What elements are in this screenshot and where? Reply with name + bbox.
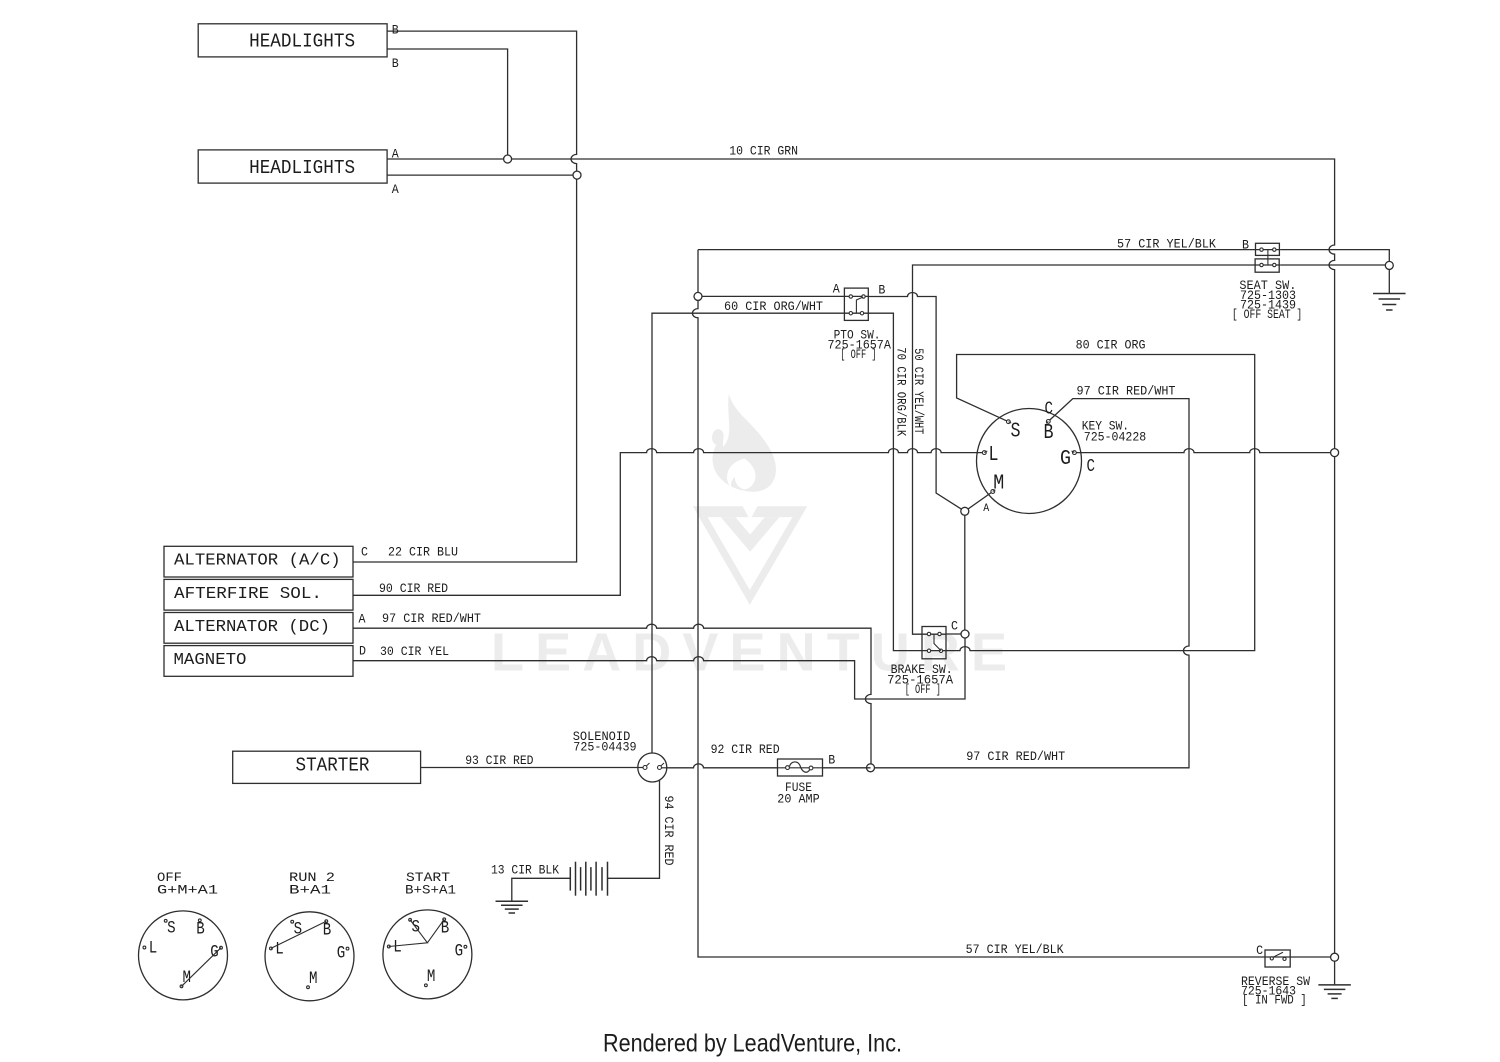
wire: seat switch ground stem: [1388, 265, 1390, 293]
solenoid: [638, 753, 667, 782]
svg-text:Rendered by LeadVenture, Inc.: Rendered by LeadVenture, Inc.: [603, 1030, 902, 1058]
wire: reverse switch ground stem: [1334, 957, 1336, 984]
wire: seat switch lower wire / 50 CIR YEL/WHT vertical to brake sw: [1280, 264, 1389, 266]
svg-text:20 AMP: 20 AMP: [777, 793, 819, 807]
wire: headlight-1 B bottom down to 10 CIR GRN junction: [387, 49, 508, 159]
svg-text:B: B: [392, 24, 399, 38]
svg-text:HEADLIGHTS: HEADLIGHTS: [249, 31, 355, 53]
svg-text:C: C: [1045, 399, 1054, 419]
afterfire solenoid box: [164, 579, 353, 610]
svg-text:725-04439: 725-04439: [573, 740, 636, 754]
svg-text:80 CIR ORG: 80 CIR ORG: [1076, 339, 1146, 353]
svg-text:G: G: [210, 942, 219, 962]
svg-text:D: D: [359, 645, 366, 659]
fuse: [778, 759, 823, 776]
svg-text:B+S+A1: B+S+A1: [405, 884, 456, 898]
svg-text:G: G: [455, 941, 464, 961]
svg-text:A: A: [392, 183, 399, 197]
brake switch: [922, 627, 946, 659]
junction node: [961, 507, 969, 515]
PTO switch: [844, 288, 868, 320]
junction node: [1385, 261, 1393, 269]
wire: PTO B to key M junction (50 CIR YEL/WHT): [868, 293, 965, 512]
wire: solenoid to fuse: [667, 764, 777, 768]
junction node: [961, 630, 969, 638]
wire: main left vertical bus x=698 + 57 CIR YEL/BLK bottom to reverse sw: [692, 250, 1290, 957]
svg-text:92 CIR RED: 92 CIR RED: [711, 743, 780, 757]
svg-text:97 CIR RED/WHT: 97 CIR RED/WHT: [1077, 385, 1176, 399]
alternator A/C box: [164, 546, 353, 577]
svg-text:57 CIR YEL/BLK: 57 CIR YEL/BLK: [966, 943, 1064, 957]
wire: brake C to junction: [946, 633, 965, 635]
wire: 97 CIR RED/WHT alternator DC to fuse junction: [353, 624, 871, 768]
headlights box 2: [198, 150, 387, 183]
reverse switch: [1265, 950, 1290, 967]
svg-text:13 CIR BLK: 13 CIR BLK: [491, 864, 559, 878]
ground (battery): [496, 900, 529, 902]
svg-text:90 CIR RED: 90 CIR RED: [379, 582, 448, 596]
svg-text:L: L: [989, 444, 999, 467]
wire: 90 CIR RED from afterfire sol. + key L feed: [353, 449, 984, 596]
svg-text:B: B: [1044, 422, 1054, 445]
junction node: [1331, 953, 1339, 961]
svg-text:C: C: [1087, 457, 1096, 477]
svg-text:G+M+A1: G+M+A1: [157, 884, 218, 898]
junction node: [1331, 449, 1339, 457]
svg-text:97 CIR RED/WHT: 97 CIR RED/WHT: [966, 750, 1065, 764]
svg-text:30 CIR YEL: 30 CIR YEL: [380, 645, 449, 659]
svg-text:L: L: [149, 939, 158, 959]
key switch terminals: [1007, 420, 1011, 424]
svg-text:S: S: [167, 919, 176, 939]
svg-text:ALTERNATOR (A/C): ALTERNATOR (A/C): [174, 552, 341, 571]
svg-text:97 CIR RED/WHT: 97 CIR RED/WHT: [382, 612, 481, 626]
svg-text:HEADLIGHTS: HEADLIGHTS: [249, 157, 355, 179]
wire: PTO lower-right, 70 CIR ORG/BLK vertical, to brake sw: [868, 313, 946, 650]
svg-text:L: L: [393, 938, 402, 958]
wire: 10 CIR GRN main + right-side vertical bus: [387, 159, 1335, 957]
svg-text:B+A1: B+A1: [289, 884, 331, 898]
wire: key G to right bus: [1074, 449, 1334, 453]
key position circle START: [383, 910, 472, 999]
alternator DC box: [164, 613, 353, 644]
svg-text:C: C: [361, 546, 368, 560]
svg-text:A: A: [983, 503, 989, 515]
junction node: [867, 764, 875, 772]
svg-text:B: B: [878, 283, 885, 297]
svg-text:A: A: [359, 613, 366, 627]
svg-text:A: A: [392, 148, 399, 162]
svg-text:[ OFF ]: [ OFF ]: [905, 683, 941, 697]
wire: 57 CIR YEL/BLK top to seat switch: [698, 249, 1280, 251]
wire: headlight-2 A bottom to junction: [387, 174, 577, 176]
svg-text:G: G: [337, 943, 346, 963]
wire: fuse output to junction: [823, 767, 871, 769]
svg-text:B: B: [1242, 239, 1249, 253]
svg-text:57 CIR YEL/BLK: 57 CIR YEL/BLK: [1117, 238, 1216, 252]
key position circle OFF: [139, 911, 228, 1000]
wire: PTO lower-left to solenoid top: [652, 313, 868, 753]
starter box: [233, 751, 421, 783]
svg-text:C: C: [1256, 944, 1263, 958]
wire: headlight-1 B top to alternator A/C (22 CIR BLU vertical): [353, 31, 577, 562]
wire: key M diagonal: [965, 492, 993, 512]
junction node: [573, 171, 581, 179]
svg-text:94 CIR RED: 94 CIR RED: [661, 796, 675, 866]
wire: 97 CIR RED/WHT key B to fuse junction: [871, 399, 1190, 768]
svg-text:70 CIR ORG/BLK: 70 CIR ORG/BLK: [893, 347, 907, 436]
wire: 80 CIR ORG brake sw to key S: [946, 355, 1255, 651]
headlights box 1: [198, 24, 387, 57]
svg-text:[ OFF ]: [ OFF ]: [840, 348, 876, 362]
svg-text:60 CIR ORG/WHT: 60 CIR ORG/WHT: [724, 300, 823, 314]
battery 13 CIR BLK: [569, 867, 571, 891]
svg-text:B: B: [828, 754, 835, 768]
svg-text:MAGNETO: MAGNETO: [174, 651, 247, 670]
svg-text:STARTER: STARTER: [296, 755, 370, 777]
wire: key M junction down to brake C junction: [964, 511, 966, 634]
key switch U1 circle: [977, 409, 1082, 514]
svg-text:10 CIR GRN: 10 CIR GRN: [729, 144, 798, 158]
svg-text:A: A: [833, 282, 840, 296]
svg-text:B: B: [392, 57, 399, 71]
svg-text:50 CIR YEL/WHT: 50 CIR YEL/WHT: [911, 348, 925, 434]
wire: battery negative to ground (13 CIR BLK): [512, 878, 571, 901]
svg-text:G: G: [1060, 448, 1071, 471]
svg-text:[ OFF SEAT ]: [ OFF SEAT ]: [1232, 308, 1302, 322]
svg-text:[ IN FWD ]: [ IN FWD ]: [1242, 994, 1307, 1008]
wire: 60 CIR ORG/WHT junction to PTO A: [698, 295, 868, 297]
junction node: [694, 292, 702, 300]
svg-text:S: S: [1011, 420, 1021, 443]
svg-text:M: M: [427, 967, 436, 987]
svg-text:B: B: [323, 921, 332, 941]
seat switch: [1256, 243, 1280, 255]
wire: 93 CIR RED starter to solenoid: [421, 767, 638, 769]
ground (reverse switch): [1318, 984, 1351, 986]
ground (seat switch): [1373, 293, 1406, 295]
svg-text:M: M: [993, 472, 1004, 495]
svg-text:725-04228: 725-04228: [1084, 431, 1146, 445]
wire: solenoid bottom to battery (94 CIR RED): [608, 780, 660, 878]
svg-text:22 CIR BLU: 22 CIR BLU: [388, 546, 458, 560]
junction node: [504, 155, 512, 163]
watermark flame logo: [693, 394, 808, 605]
svg-text:AFTERFIRE SOL.: AFTERFIRE SOL.: [174, 585, 322, 604]
svg-text:C: C: [951, 620, 958, 634]
svg-text:ALTERNATOR (DC): ALTERNATOR (DC): [174, 618, 330, 637]
wire: 30 CIR YEL magneto to brake C junction: [353, 634, 965, 699]
svg-text:M: M: [309, 969, 318, 989]
magneto box: [164, 646, 353, 677]
svg-text:B: B: [196, 920, 205, 940]
key position circle RUN 2: [265, 912, 354, 1001]
svg-text:93 CIR RED: 93 CIR RED: [465, 754, 533, 768]
